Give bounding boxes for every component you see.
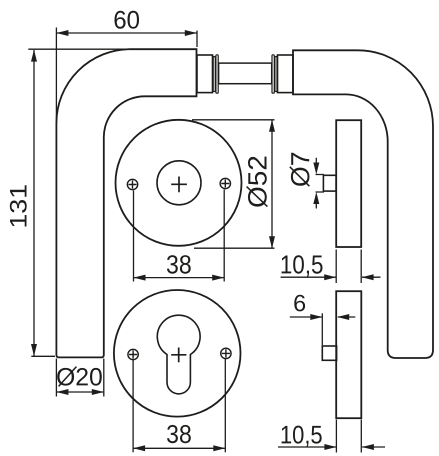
- lower side view cylinder protrusion: [322, 346, 336, 360]
- label 10,5 lower: [282, 426, 322, 447]
- right handle outline (plan view): [293, 50, 433, 358]
- dimension 38 upper: [134, 190, 225, 282]
- label O52: [248, 157, 267, 207]
- dimension 10,5 lower: [278, 420, 385, 453]
- right collar ring outer: [272, 55, 274, 93]
- left bearing hub: [197, 55, 213, 93]
- upper side view screw head: [323, 175, 336, 191]
- slash of O52 diameter sign: [247, 187, 268, 207]
- upper rosette bore circle: [157, 161, 201, 205]
- label 10,5 upper: [282, 255, 323, 277]
- upper rosette centre cross: [171, 177, 187, 193]
- dimension 6: [290, 313, 356, 345]
- label 38 lower: [167, 425, 191, 443]
- lower rosette right screw: [221, 348, 231, 358]
- upper rosette left screw: [127, 179, 137, 189]
- upper rosette side view plate: [336, 120, 361, 247]
- left collar ring outer: [216, 55, 218, 93]
- label O20: [57, 368, 102, 386]
- upper rosette outer circle: [116, 120, 242, 246]
- upper rosette right screw: [220, 178, 230, 188]
- left collar ring inner: [213, 57, 215, 92]
- spindle: [219, 63, 272, 84]
- right collar ring inner: [275, 57, 277, 92]
- lower rosette euro profile cutout: [157, 315, 200, 394]
- dimension 10,5 upper: [281, 250, 381, 284]
- left handle outline (plan view): [56, 49, 196, 357]
- label 6: [294, 295, 305, 312]
- label O7: [291, 153, 310, 186]
- slash of O7 diameter sign: [290, 167, 310, 186]
- slash of O20 diameter sign: [59, 367, 77, 387]
- label 131: [10, 185, 27, 226]
- label 38 upper: [167, 255, 191, 274]
- dimension O7: [316, 158, 325, 209]
- dimension O52: [192, 120, 275, 248]
- lower rosette side view plate: [336, 291, 361, 418]
- right bearing hub: [278, 55, 294, 93]
- lower rosette centre cross: [171, 348, 186, 363]
- dimension 38 lower: [133, 359, 225, 452]
- dimension 60: [56, 28, 197, 125]
- lower rosette left screw: [128, 349, 138, 359]
- label 60: [115, 11, 140, 29]
- dimension O20: [56, 359, 103, 397]
- lower rosette outer circle: [114, 290, 241, 417]
- dimension 131: [28, 49, 131, 356]
